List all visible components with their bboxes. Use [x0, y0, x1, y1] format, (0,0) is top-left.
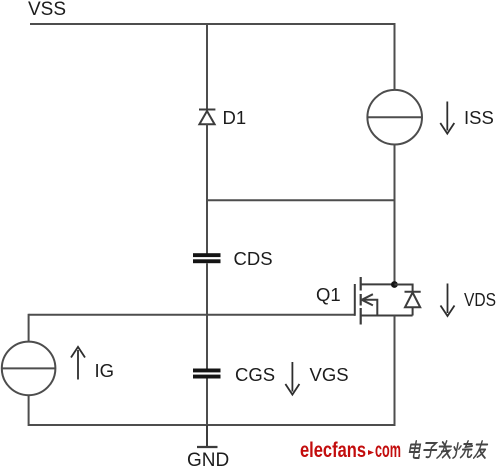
wire D1 to CDS — [206, 124, 208, 253]
wire source to bottom rail — [394, 316, 396, 426]
capacitor CGS — [193, 369, 221, 379]
wire IG to bottom rail — [28, 395, 30, 426]
ground — [197, 425, 218, 447]
发 — [437, 441, 453, 458]
电 — [409, 441, 422, 458]
wire left branch VSS to D1 — [206, 23, 208, 110]
arrow IG — [71, 347, 85, 380]
wire CGS to bottom rail — [206, 379, 208, 427]
wire middle rail drain link — [206, 199, 396, 201]
channel dashes — [360, 277, 362, 291]
node VSS label — [28, 0, 66, 20]
svg-text:D1: D1 — [223, 107, 247, 128]
node drain junction dot — [391, 281, 398, 288]
svg-text:CDS: CDS — [234, 248, 273, 269]
wire right branch VSS to ISS — [394, 23, 396, 90]
current source IG — [2, 342, 56, 396]
source line — [361, 315, 413, 317]
友 — [474, 441, 488, 458]
烧 — [452, 441, 474, 458]
label ISS — [464, 107, 494, 128]
子 — [423, 443, 438, 457]
gate bar — [354, 284, 356, 316]
svg-text:VSS: VSS — [28, 0, 66, 20]
label CGS — [235, 364, 275, 385]
label D1 — [223, 107, 247, 128]
watermark chinese 电子发烧友 — [409, 441, 488, 458]
current source ISS — [367, 90, 422, 145]
transistor Q1 — [355, 277, 413, 325]
svg-text:ISS: ISS — [464, 107, 494, 128]
svg-text:VDS: VDS — [464, 289, 496, 310]
capacitor CDS — [193, 253, 221, 263]
label VGS — [310, 364, 349, 385]
node GND label — [187, 450, 229, 471]
svg-text:CGS: CGS — [235, 364, 275, 385]
body diode of Q1 — [394, 285, 420, 316]
svg-text:VGS: VGS — [310, 364, 349, 385]
watermark elecfans.com logo — [300, 439, 401, 462]
label Q1 — [316, 284, 341, 305]
svg-text:IG: IG — [95, 360, 115, 381]
wire gate rail to IG source — [28, 314, 30, 342]
label CDS — [234, 248, 273, 269]
arrow VDS — [441, 284, 455, 317]
wire gate rail — [29, 314, 355, 316]
wire ISS to drain node — [394, 144, 396, 284]
wire CDS to CGS — [206, 263, 208, 369]
label VDS — [464, 289, 496, 310]
svg-text:elecfans: elecfans — [300, 439, 366, 462]
wire bottom rail — [29, 424, 396, 426]
svg-text:GND: GND — [187, 450, 229, 471]
svg-text:com: com — [375, 439, 401, 462]
drain stub — [361, 283, 395, 285]
svg-text:Q1: Q1 — [316, 284, 341, 305]
wire top rail VSS — [30, 23, 396, 25]
label IG — [95, 360, 115, 381]
arrow ISS — [440, 102, 454, 134]
diode D1 — [199, 110, 215, 125]
arrow VGS — [285, 362, 299, 395]
body stub with arrow — [362, 300, 378, 316]
